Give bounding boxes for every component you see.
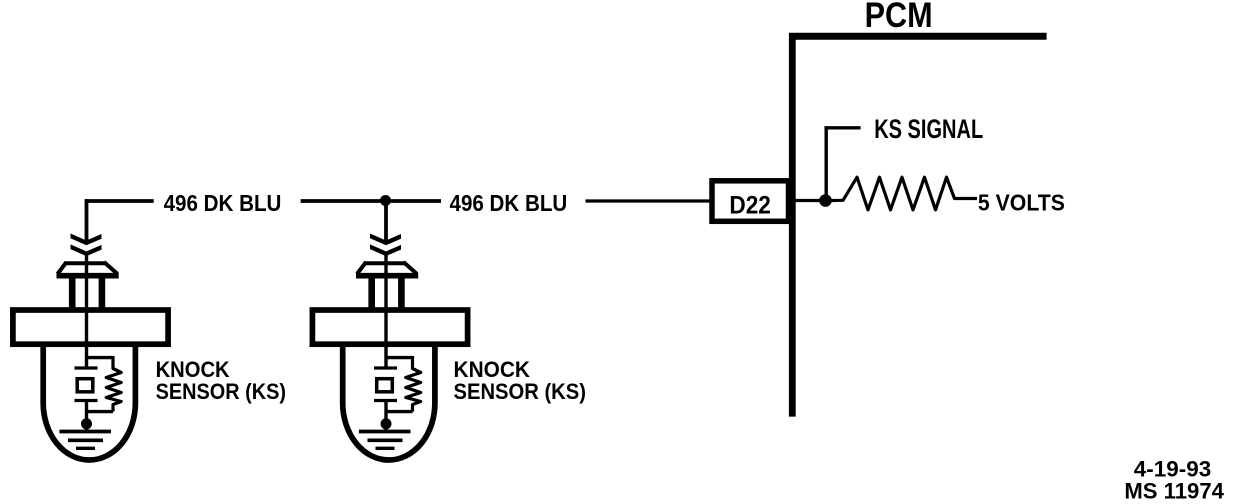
KS2 ground symbol line 1 bbox=[359, 430, 411, 434]
KS1 internal wire to ground bbox=[85, 401, 88, 432]
svg-text:MS 11974: MS 11974 bbox=[1124, 479, 1224, 504]
KS1 piezo element top plate bbox=[75, 366, 98, 369]
KS2 connector chevron upper bbox=[370, 234, 401, 246]
svg-text:SENSOR (KS): SENSOR (KS) bbox=[156, 379, 286, 404]
knock sensor KS1 bbox=[13, 199, 168, 460]
KS2 piezo element square bbox=[377, 379, 393, 392]
svg-text:496 DK BLU: 496 DK BLU bbox=[450, 190, 568, 216]
svg-text:D22: D22 bbox=[729, 192, 771, 220]
KS1 ground symbol line 2 bbox=[68, 438, 103, 442]
KS1 internal junction dot bbox=[81, 418, 92, 429]
KS1 internal top branch wire bbox=[87, 356, 114, 359]
wire D22 to internal node bbox=[791, 199, 822, 202]
KS1 bolt head left slant bbox=[58, 262, 67, 274]
wire 496 DK BLU segment B (label to junction to label) bbox=[301, 199, 441, 203]
KS2 internal wire to ground bbox=[384, 401, 387, 432]
KS2 drop wire / center line bbox=[384, 199, 388, 241]
KS1 bolt shaft left side bbox=[69, 276, 76, 311]
KS1 internal bottom branch wire bbox=[87, 410, 114, 413]
PCM module boundary top line bbox=[789, 33, 1047, 40]
KS2 bolt head trapezoid top bbox=[364, 261, 405, 265]
KS2 ground symbol line 2 bbox=[368, 438, 403, 442]
junction dot at KS2 tap bbox=[380, 195, 391, 206]
KS2 piezo element bottom plate bbox=[374, 399, 397, 402]
KS1 internal resistor zigzag bbox=[106, 356, 121, 412]
KS2 connector chevron lower bbox=[370, 244, 401, 256]
KS1 ground symbol line 1 bbox=[59, 430, 111, 434]
KS1 body shell bbox=[43, 344, 135, 460]
svg-text:KS SIGNAL: KS SIGNAL bbox=[874, 114, 983, 144]
KS1 ground symbol line 3 bbox=[76, 447, 95, 450]
wire 496 DK BLU segment C (label to D22 terminal) bbox=[586, 199, 713, 202]
svg-text:PCM: PCM bbox=[865, 0, 933, 35]
KS SIGNAL stub horizontal wire bbox=[824, 126, 860, 129]
KS2 bolt shaft right side bbox=[398, 276, 405, 311]
PCM module boundary vertical line bbox=[789, 33, 796, 417]
svg-text:SENSOR (KS): SENSOR (KS) bbox=[454, 379, 587, 404]
KS1 bolt head brim bbox=[57, 273, 119, 279]
junction node dot inside PCM bbox=[819, 194, 832, 207]
KS1 piezo element bottom plate bbox=[75, 399, 98, 402]
KS2 chevron tip to bolt wire bbox=[384, 254, 387, 369]
KS2 bolt shaft left side bbox=[368, 276, 375, 311]
KS1 connector chevron lower bbox=[71, 244, 102, 256]
KS1 bolt head right slant bbox=[104, 262, 118, 274]
connector terminal D22 box bbox=[712, 181, 789, 222]
knock sensor KS2 bbox=[312, 199, 467, 460]
KS2 internal bottom branch wire bbox=[386, 410, 413, 413]
KS2 bolt head brim bbox=[356, 273, 418, 279]
KS2 body shell bbox=[343, 344, 435, 460]
KS1 chevron tip to bolt wire bbox=[85, 254, 88, 369]
KS2 ground symbol line 3 bbox=[376, 447, 395, 450]
KS2 bolt head left slant bbox=[357, 262, 366, 274]
KS1 drop wire / center line bbox=[85, 199, 89, 241]
resistor R (pull-up to 5 volts) bbox=[832, 177, 978, 210]
svg-text:5 VOLTS: 5 VOLTS bbox=[978, 189, 1065, 215]
wire 496 DK BLU segment A (KS1 to label) bbox=[85, 199, 154, 203]
KS2 mounting flange bbox=[312, 310, 467, 344]
KS2 internal top branch wire bbox=[386, 356, 413, 359]
KS1 connector chevron upper bbox=[71, 234, 102, 246]
svg-text:496 DK BLU: 496 DK BLU bbox=[164, 190, 282, 216]
KS2 internal junction dot bbox=[381, 418, 392, 429]
KS1 bolt head trapezoid top bbox=[65, 261, 106, 265]
KS1 mounting flange bbox=[13, 310, 168, 344]
KS2 internal resistor zigzag bbox=[406, 356, 421, 412]
KS SIGNAL stub vertical wire bbox=[825, 128, 828, 196]
KS1 piezo element square bbox=[77, 379, 93, 392]
KS2 bolt head right slant bbox=[404, 262, 418, 274]
KS1 bolt shaft right side bbox=[99, 276, 106, 311]
KS2 piezo element top plate bbox=[374, 366, 397, 369]
